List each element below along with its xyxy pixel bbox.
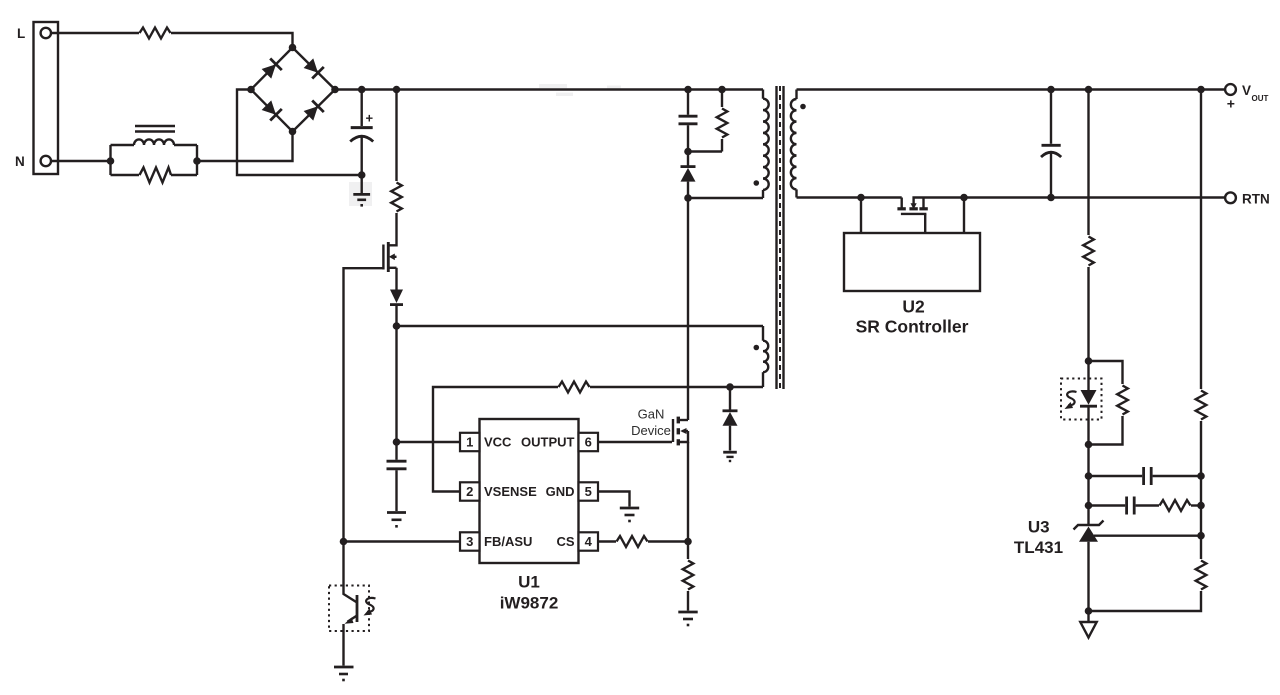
wire Vout rail [797,88,1225,90]
wire OUTPUT to GaN gate [598,441,672,443]
node bridge top [289,44,297,52]
wire GND pin5 [598,492,630,507]
wire GaN drain up [687,198,689,420]
svg-text:OUTPUT: OUTPUT [521,435,575,450]
wire vsense resistor to aux [590,386,763,388]
wire rail to startup resistor [395,90,397,182]
svg-text:N: N [15,154,25,169]
node SR right [960,194,968,202]
node SR left [857,194,865,202]
resistor R8 divider bottom [1196,561,1207,590]
svg-text:FB/ASU: FB/ASU [484,534,532,549]
node bridge bottom [289,128,297,136]
bridge diode bottom-right [303,100,324,121]
wire switch node to primary bottom [688,197,763,199]
secondary phase dot [800,104,806,110]
wire Q1 source to D1 [395,268,397,290]
capacitor C3 output [1041,90,1061,198]
svg-text:2: 2 [466,484,473,499]
svg-text:iW9872: iW9872 [500,594,559,613]
ground secondary triangle [1080,611,1096,638]
capacitor C4 comp [1089,467,1202,485]
wire RTN rail right [921,196,1225,198]
transistor Q1 startup FET [383,242,396,272]
transistor Q3 SR FET [897,198,927,234]
terminal RTN [1225,192,1236,203]
node aux supply [393,322,401,330]
capacitor C2 VCC [387,442,407,511]
node snubber bottom [684,148,692,156]
node bridge left [247,86,255,94]
ground opto [334,667,354,680]
resistor R10 snubber [688,90,722,152]
wire GaN source down [687,442,689,542]
transformer core [777,86,784,389]
shunt regulator U3 TL431 [1074,506,1104,612]
svg-text:OUT: OUT [1252,94,1269,103]
svg-text:5: 5 [585,484,592,499]
svg-text:+: + [366,111,374,126]
wire D1 to VCC node [395,305,397,326]
wire VSENSE [433,387,558,492]
wire snubber to D3 [687,152,689,167]
wire fuse to bridge top [171,33,293,48]
resistor F1 fuse [140,28,171,39]
wire sense resistor to ground [687,591,689,611]
resistor R2 vsense [559,382,590,393]
capacitor C5 comp [1089,497,1160,515]
earth ground primary [349,175,372,206]
node choke right [193,157,201,165]
wire to sense resistor [687,542,689,560]
node choke left [107,157,115,165]
transformer T1 aux winding [763,326,768,387]
node comp RC left [1085,502,1093,510]
svg-text:1: 1 [466,435,473,450]
node bridge right [331,86,339,94]
node opto branch top [1085,86,1093,94]
node comp cap left [1085,472,1093,480]
op-amp U1 iW9872 body [480,419,579,563]
svg-text:RTN: RTN [1242,191,1270,206]
node divider top [1197,86,1205,94]
primary phase dot [754,180,760,186]
optocoupler phototransistor [329,586,376,632]
resistor R11 LED parallel [1089,361,1123,445]
resistor R3 CS [617,536,648,547]
wire L to fuse [51,32,139,34]
wire divider bottom [1089,591,1202,611]
wire choke to bridge bottom [197,132,293,162]
transformer T1 primary winding [763,90,769,199]
wire divider middle [1200,421,1202,559]
wire CS resistor to source node [648,540,688,542]
capacitor C1 bulk [350,90,373,176]
wire resistor to Q1 drain [388,213,396,245]
node LED bottom [1085,441,1093,449]
optocoupler LED [1061,361,1102,445]
svg-text:VCC: VCC [484,435,512,450]
wire divider upper [1200,90,1202,390]
diode D3 clamp [681,167,696,182]
node CS [684,538,692,546]
wire D3 to switch node [687,182,689,198]
resistor R7 divider top [1196,391,1207,420]
pin 1 box [460,433,480,451]
common-mode choke L1 [111,126,198,175]
ground aux [723,452,737,461]
wire SR drain to U2 [860,198,862,234]
wire RTN rail left [797,196,902,198]
wire comp to divider [1191,504,1201,506]
node LED top [1085,357,1093,365]
svg-text:Device: Device [631,423,671,438]
ground VCC cap [387,513,406,527]
diode D2 [723,411,738,426]
svg-text:GND: GND [546,484,575,499]
resistor R4 sense [683,561,694,590]
wire HV rail [335,88,763,90]
resistor R9 choke damper [140,168,172,183]
wire N to choke [51,160,111,162]
node output cap bottom [1047,194,1055,202]
wire opto emitter to ground [342,624,344,666]
node anode [1085,607,1093,615]
node bulk cap top [358,86,366,94]
faint artifacts near rail [539,84,621,96]
node aux bottom [726,383,734,391]
pin 4 box [579,532,599,550]
svg-text:4: 4 [585,534,593,549]
svg-text:U3: U3 [1028,518,1050,537]
ground pin5 [620,508,639,521]
node comp RC right [1197,502,1205,510]
wire aux top line [397,325,764,327]
svg-text:V: V [1242,83,1251,98]
svg-text:L: L [17,26,25,41]
svg-text:U1: U1 [518,573,540,592]
resistor R5 opto bias [1083,237,1094,266]
node startup top [393,86,401,94]
wire CS pin4 [598,540,616,542]
node output cap top [1047,86,1055,94]
bridge diode bottom-left [261,99,282,120]
wire down to VCC [395,326,397,442]
aux phase dot [754,345,760,351]
resistor R1 startup [391,183,402,212]
pin 3 box [460,532,480,550]
bridge diode top-right [303,57,324,78]
svg-text:+: + [1227,96,1235,112]
node switch [684,194,692,202]
node comp cap right [1197,472,1205,480]
svg-text:3: 3 [466,534,473,549]
node ref [1197,532,1205,540]
pin 5 box [579,482,599,500]
diode D1 [390,290,403,305]
wire LED to comp [1087,445,1089,506]
pin 2 box [460,482,480,500]
terminal VOUT [1225,84,1236,95]
wire SR source to U2 [963,198,965,234]
svg-text:GaN: GaN [638,407,665,422]
svg-text:SR Controller: SR Controller [856,317,969,337]
wire opto branch down [1087,90,1089,236]
wire TL431 ref [1094,535,1201,537]
capacitor C6 snubber [679,90,698,152]
node primary ground [358,171,366,179]
svg-text:CS: CS [556,534,574,549]
transistor Q2 GaN device [673,417,688,446]
node snubber cap top [684,86,692,94]
node snubber res top [718,86,726,94]
wire opto bias to LED [1087,267,1089,361]
pin 6 box [579,433,599,451]
bridge diode top-left [261,58,282,79]
op-amp U2 SR controller box [844,233,980,291]
label VOUT [1227,83,1269,112]
svg-text:6: 6 [585,435,592,450]
input connector J1 [34,22,59,174]
bridge rectifier BR1 [251,48,335,132]
svg-text:VSENSE: VSENSE [484,484,537,499]
wire aux bottom to D2 [729,387,731,410]
transformer T1 secondary winding [791,90,797,198]
wire VCC to pin1 [397,441,461,443]
resistor R6 comp [1160,500,1191,511]
ground sense [678,612,697,625]
svg-text:TL431: TL431 [1014,538,1063,557]
wire FB to pin3 [344,540,461,542]
svg-text:U2: U2 [902,297,925,317]
wire gate to FB bus [344,268,384,541]
wire FB down to opto [342,542,344,586]
node VCC [393,438,401,446]
wire D2 to ground [729,426,731,451]
node FB [340,538,348,546]
wire bridge left to primary ground [237,90,362,176]
